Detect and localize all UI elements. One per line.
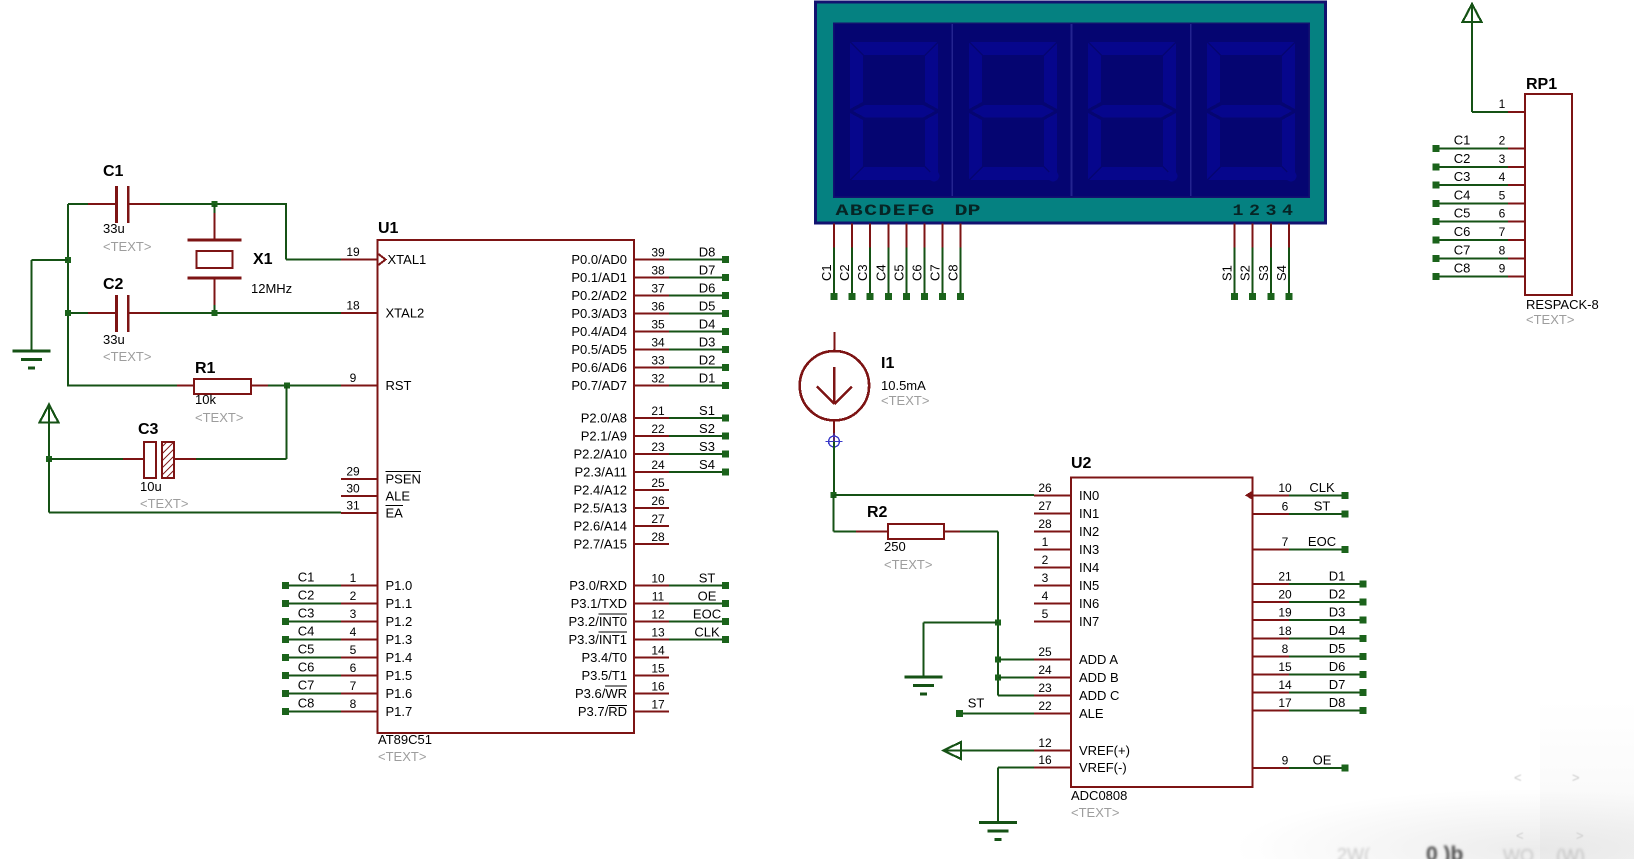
display pin C3	[869, 224, 871, 248]
pin 28 P2.7/A15 of U1	[634, 543, 669, 545]
svg-text:25: 25	[1038, 645, 1052, 659]
terminal C8 to P1.7	[282, 708, 289, 715]
svg-text:14: 14	[1278, 678, 1292, 692]
svg-text:D2: D2	[699, 353, 716, 368]
svg-text:26: 26	[1038, 481, 1052, 495]
svg-text:S4: S4	[699, 457, 715, 472]
svg-text:1: 1	[1233, 202, 1244, 220]
pin 8 OUT5 of U2 net D5	[1253, 655, 1290, 657]
capacitor C3 right hatched plate	[162, 442, 174, 478]
terminal C7 to P1.6	[282, 690, 289, 697]
pin 39 P0.0/AD0 of U1 net D8	[634, 259, 669, 261]
display pin S3	[1270, 224, 1272, 248]
pin 10 CLOCK of U2 net CLK	[1253, 494, 1290, 496]
display cell separator 3	[1190, 24, 1192, 196]
svg-text:38: 38	[651, 264, 665, 278]
display pin C1	[833, 224, 835, 248]
svg-text:R2: R2	[867, 504, 888, 521]
svg-text:D5: D5	[699, 299, 716, 314]
display pin S4	[1288, 224, 1290, 248]
svg-text:CLK: CLK	[694, 625, 720, 640]
pin 1 IN3 of U2	[1034, 548, 1071, 550]
svg-text:E: E	[893, 202, 906, 220]
svg-text:D4: D4	[699, 317, 716, 332]
svg-text:IN6: IN6	[1079, 596, 1099, 611]
svg-text:<TEXT>: <TEXT>	[1071, 805, 1119, 820]
svg-text:10k: 10k	[195, 392, 216, 407]
svg-text:D6: D6	[699, 281, 716, 296]
wire R2 right red stub	[944, 531, 960, 533]
wire C1 right to crystal node	[160, 203, 287, 205]
svg-text:C5: C5	[1454, 206, 1471, 221]
svg-text:IN4: IN4	[1079, 560, 1099, 575]
svg-text:27: 27	[651, 512, 665, 526]
svg-text:A: A	[836, 202, 850, 220]
pin 9 RST of U1	[341, 385, 378, 387]
watermark text (W)	[1556, 846, 1585, 859]
pin 19 XTAL1 of U1	[341, 259, 378, 261]
svg-text:G: G	[921, 202, 934, 220]
pin 6 START of U2 net ST	[1253, 513, 1290, 515]
svg-text:22: 22	[651, 422, 665, 436]
resistor R1	[194, 379, 251, 394]
terminal C3 to P1.2	[282, 618, 289, 625]
svg-text:<TEXT>: <TEXT>	[378, 749, 426, 764]
pin 37 P0.2/AD2 of U1 net D6	[634, 295, 669, 297]
svg-text:16: 16	[1038, 753, 1052, 767]
svg-text:B: B	[850, 202, 864, 220]
wire VCC rail down	[48, 459, 50, 513]
wire EA row	[49, 512, 341, 514]
pin 15 P3.5/T1 of U1	[634, 675, 669, 677]
pin 21 OUT1 of U2 net D1	[1253, 583, 1290, 585]
ground G1	[13, 350, 51, 353]
svg-text:2: 2	[1042, 553, 1049, 567]
svg-text:21: 21	[651, 404, 665, 418]
svg-text:33u: 33u	[103, 332, 125, 347]
svg-text:23: 23	[1038, 681, 1052, 695]
wire C1 left red stub	[88, 203, 117, 205]
overline RD	[608, 705, 627, 707]
svg-text:9: 9	[350, 371, 357, 385]
terminal C6 to P1.5	[282, 672, 289, 679]
svg-text:31: 31	[346, 499, 360, 513]
pin 5 P1.4 of U1	[341, 657, 378, 659]
pin 23 ADD C of U2	[1034, 694, 1071, 696]
svg-text:P2.6/A14: P2.6/A14	[574, 519, 628, 534]
svg-text:P0.6/AD6: P0.6/AD6	[571, 360, 627, 375]
svg-text:<TEXT>: <TEXT>	[103, 349, 151, 364]
pin 34 P0.5/AD5 of U1 net D3	[634, 349, 669, 351]
svg-text:19: 19	[346, 245, 360, 259]
svg-text:2: 2	[1499, 134, 1506, 148]
svg-text:C2: C2	[1454, 151, 1471, 166]
wire C3 left red stub	[123, 458, 145, 460]
display digit 1	[850, 42, 940, 182]
svg-text:10: 10	[651, 572, 665, 586]
svg-text:P0.3/AD3: P0.3/AD3	[571, 306, 627, 321]
watermark mark lt2	[1516, 828, 1524, 843]
pin 33 P0.6/AD6 of U1 net D2	[634, 367, 669, 369]
svg-text:4: 4	[1042, 589, 1049, 603]
svg-text:P3.2/INT0: P3.2/INT0	[568, 614, 627, 629]
display pin C7	[942, 224, 944, 248]
watermark mark gt2	[1576, 828, 1584, 843]
pin 12 VREF(+) of U2	[1034, 750, 1071, 752]
svg-text:30: 30	[346, 482, 360, 496]
svg-text:C7: C7	[1454, 242, 1471, 257]
svg-text:P2.3/A11: P2.3/A11	[574, 465, 627, 480]
svg-text:C3: C3	[855, 264, 870, 281]
svg-text:2: 2	[1249, 202, 1260, 220]
svg-text:C8: C8	[946, 264, 961, 281]
svg-text:C7: C7	[928, 264, 943, 281]
current source I1	[800, 351, 869, 420]
svg-text:15: 15	[651, 662, 665, 676]
ic U1 body	[378, 240, 635, 733]
svg-text:C2: C2	[837, 264, 852, 281]
svg-text:C5: C5	[298, 642, 315, 657]
svg-text:XTAL1: XTAL1	[388, 252, 427, 267]
display pin C2	[851, 224, 853, 248]
pin 2 IN4 of U2	[1034, 566, 1071, 568]
svg-text:P2.2/A10: P2.2/A10	[574, 447, 628, 462]
pin 1 P1.0 of U1	[341, 585, 378, 587]
svg-text:C3: C3	[138, 421, 159, 438]
svg-text:C1: C1	[103, 163, 124, 180]
svg-text:D8: D8	[1329, 695, 1346, 710]
svg-text:F: F	[907, 202, 920, 220]
wire to IN0	[834, 494, 1034, 496]
svg-text:IN3: IN3	[1079, 542, 1099, 557]
svg-text:P0.2/AD2: P0.2/AD2	[571, 288, 627, 303]
svg-text:S1: S1	[1220, 265, 1235, 281]
display cell separator 1	[951, 24, 953, 196]
svg-text:OE: OE	[1313, 753, 1332, 768]
wire R2 right	[960, 531, 998, 533]
svg-text:P3.7/RD: P3.7/RD	[578, 704, 627, 719]
svg-text:21: 21	[1278, 570, 1292, 584]
svg-text:EA: EA	[386, 506, 404, 521]
svg-text:C2: C2	[103, 276, 124, 293]
svg-text:18: 18	[346, 299, 360, 313]
pin 17 P3.7/RD of U1	[634, 711, 669, 713]
terminal C5 to P1.4	[282, 654, 289, 661]
svg-text:7: 7	[1499, 225, 1506, 239]
terminal ST to ALE	[956, 710, 963, 717]
svg-text:23: 23	[651, 440, 665, 454]
svg-text:6: 6	[350, 661, 357, 675]
svg-text:C4: C4	[298, 624, 315, 639]
pin 25 P2.4/A12 of U1	[634, 489, 669, 491]
pin 3 IN5 of U2	[1034, 584, 1071, 586]
svg-text:24: 24	[651, 458, 665, 472]
pin 19 OUT3 of U2 net D3	[1253, 619, 1290, 621]
svg-text:C5: C5	[891, 264, 906, 281]
svg-text:C3: C3	[298, 606, 315, 621]
display DS1 inner panel	[834, 23, 1310, 197]
pin 24 ADD B of U2	[1034, 676, 1071, 678]
svg-text:5: 5	[350, 643, 357, 657]
pin 26 IN0 of U2	[1034, 494, 1071, 496]
crystal X1 bottom stub	[214, 278, 216, 305]
svg-text:1: 1	[350, 571, 357, 585]
svg-text:3: 3	[350, 607, 357, 621]
wire to ground	[32, 259, 68, 261]
node ADD A junction	[995, 656, 1001, 662]
svg-text:D8: D8	[699, 245, 716, 260]
pin 17 OUT8 of U2 net D8	[1253, 710, 1290, 712]
svg-text:20: 20	[1278, 588, 1292, 602]
svg-text:P3.6/WR: P3.6/WR	[575, 686, 627, 701]
svg-text:C6: C6	[298, 660, 315, 675]
wire RP1 pin1	[1472, 111, 1508, 113]
overline PSEN	[386, 471, 422, 473]
pin 2 P1.1 of U1	[341, 603, 378, 605]
svg-text:P0.1/AD1: P0.1/AD1	[571, 270, 627, 285]
wire C1 right red stub	[129, 203, 160, 205]
pin 9 OE of U2 net OE	[1253, 767, 1290, 769]
node RST junction	[284, 382, 290, 388]
svg-text:7: 7	[1282, 535, 1289, 549]
watermark mark lt	[1514, 770, 1522, 785]
pin 10 P3.0/RXD of U1 net ST	[634, 585, 669, 587]
terminal C2 to P1.1	[282, 600, 289, 607]
watermark wash	[1240, 790, 1634, 859]
svg-text:P3.1/TXD: P3.1/TXD	[571, 596, 627, 611]
svg-text:P0.7/AD7: P0.7/AD7	[571, 378, 627, 393]
svg-text:P0.0/AD0: P0.0/AD0	[571, 252, 627, 267]
svg-text:D3: D3	[699, 335, 716, 350]
origin marker	[829, 436, 840, 447]
svg-text:P2.7/A15: P2.7/A15	[574, 537, 628, 552]
svg-text:<TEXT>: <TEXT>	[881, 393, 929, 408]
svg-text:33: 33	[651, 354, 665, 368]
wire C2 right to XTAL2 pin	[160, 312, 341, 314]
capacitor C3 left plate	[144, 442, 156, 478]
pin 36 P0.3/AD3 of U1 net D5	[634, 313, 669, 315]
wire R1 to RST junction	[268, 385, 341, 387]
svg-text:P0.5/AD5: P0.5/AD5	[571, 342, 627, 357]
svg-text:3: 3	[1042, 571, 1049, 585]
wire R2 down rail	[997, 532, 999, 696]
pin 30 ALE of U1	[341, 495, 378, 497]
svg-text:1: 1	[1499, 97, 1506, 111]
svg-text:17: 17	[1278, 696, 1292, 710]
pin 7 EOC of U2 net EOC	[1253, 549, 1290, 551]
svg-text:X1: X1	[253, 251, 273, 268]
pin 31 EA of U1	[341, 512, 378, 514]
svg-text:6: 6	[1499, 207, 1506, 221]
svg-text:D5: D5	[1329, 641, 1346, 656]
svg-text:IN7: IN7	[1079, 614, 1099, 629]
ic U2 body	[1071, 478, 1253, 788]
svg-text:16: 16	[651, 680, 665, 694]
terminal C4 to P1.3	[282, 636, 289, 643]
svg-text:C6: C6	[1454, 224, 1471, 239]
wire C2 right red stub	[129, 312, 160, 314]
svg-text:RST: RST	[386, 378, 412, 393]
wire I1 to IN0 junction	[833, 442, 835, 496]
pin 4 of RP1 net C3	[1433, 182, 1440, 189]
pin 7 P1.6 of U1	[341, 693, 378, 695]
pin 22 ALE of U2	[1034, 712, 1071, 714]
power arrow VCC left	[40, 405, 59, 423]
svg-text:VREF(-): VREF(-)	[1079, 760, 1127, 775]
svg-text:C7: C7	[298, 678, 315, 693]
display pin C5	[905, 224, 907, 248]
svg-text:C6: C6	[910, 264, 925, 281]
svg-text:IN0: IN0	[1079, 488, 1099, 503]
svg-text:ALE: ALE	[1079, 706, 1104, 721]
svg-text:D4: D4	[1329, 623, 1346, 638]
svg-text:XTAL2: XTAL2	[386, 306, 425, 321]
svg-text:ST: ST	[968, 696, 985, 711]
svg-text:C: C	[864, 202, 878, 220]
svg-text:28: 28	[1038, 517, 1052, 531]
svg-text:C8: C8	[1454, 261, 1471, 276]
svg-text:<TEXT>: <TEXT>	[884, 557, 932, 572]
svg-text:8: 8	[350, 697, 357, 711]
node rail-ground tap	[65, 257, 71, 263]
svg-text:250: 250	[884, 539, 906, 554]
svg-text:P2.4/A12: P2.4/A12	[574, 483, 628, 498]
svg-text:26: 26	[651, 494, 665, 508]
svg-text:P2.0/A8: P2.0/A8	[581, 411, 627, 426]
pin 28 IN2 of U2	[1034, 530, 1071, 532]
wire to ADD A	[998, 658, 1034, 660]
pin 20 OUT2 of U2 net D2	[1253, 601, 1290, 603]
display digit 4	[1207, 42, 1297, 182]
pin 18 XTAL2 of U1	[341, 312, 378, 314]
pin 2 of RP1 net C1	[1433, 145, 1440, 152]
pin 23 P2.2/A10 of U1 net S3	[634, 453, 669, 455]
svg-text:22: 22	[1038, 699, 1052, 713]
pin 11 P3.1/TXD of U1 net OE	[634, 603, 669, 605]
svg-text:C1: C1	[298, 570, 315, 585]
svg-text:11: 11	[652, 590, 665, 604]
svg-text:RP1: RP1	[1526, 76, 1557, 93]
svg-text:ALE: ALE	[386, 489, 411, 504]
svg-text:ADD B: ADD B	[1079, 670, 1119, 685]
svg-text:36: 36	[651, 300, 665, 314]
respack RP1 body	[1525, 94, 1572, 295]
svg-text:S2: S2	[699, 421, 715, 436]
svg-text:25: 25	[651, 476, 665, 490]
pin 35 P0.4/AD4 of U1 net D4	[634, 331, 669, 333]
svg-text:D7: D7	[699, 263, 716, 278]
pin 29 PSEN of U1	[341, 478, 378, 480]
wire R1 right red stub	[251, 385, 268, 387]
pin 4 P1.3 of U1	[341, 639, 378, 641]
svg-text:D7: D7	[1329, 677, 1346, 692]
svg-text:10.5mA: 10.5mA	[881, 378, 926, 393]
wire left rail vertical	[67, 204, 69, 386]
watermark mark gt	[1572, 770, 1580, 785]
svg-text:32: 32	[651, 372, 665, 386]
overline INT0	[599, 613, 628, 615]
svg-text:27: 27	[1038, 499, 1052, 513]
svg-text:C1: C1	[819, 264, 834, 281]
svg-text:S3: S3	[1256, 265, 1271, 281]
pin 6 P1.5 of U1	[341, 675, 378, 677]
svg-text:P3.3/INT1: P3.3/INT1	[568, 632, 627, 647]
svg-text:<TEXT>: <TEXT>	[195, 410, 243, 425]
display pin S2	[1252, 224, 1254, 248]
wire to XTAL1 pin	[286, 259, 341, 261]
svg-text:37: 37	[651, 282, 665, 296]
wire VREF- from ground	[998, 767, 1034, 769]
capacitor C2	[115, 295, 118, 332]
pin 9 of RP1 net C8	[1433, 273, 1440, 280]
svg-text:P: P	[968, 202, 981, 220]
pin 3 P1.2 of U1	[341, 621, 378, 623]
svg-text:28: 28	[651, 530, 665, 544]
svg-text:1: 1	[1042, 535, 1049, 549]
display pin S1	[1234, 224, 1236, 248]
svg-text:IN5: IN5	[1079, 578, 1099, 593]
svg-text:15: 15	[1278, 660, 1292, 674]
svg-text:S1: S1	[699, 403, 715, 418]
wire down to XTAL1 row	[285, 204, 287, 260]
svg-text:P0.4/AD4: P0.4/AD4	[571, 324, 627, 339]
svg-text:3: 3	[1499, 152, 1506, 166]
svg-text:<TEXT>: <TEXT>	[103, 239, 151, 254]
svg-text:P2.5/A13: P2.5/A13	[574, 501, 628, 516]
pin 22 P2.1/A9 of U1 net S2	[634, 435, 669, 437]
display pin C4	[887, 224, 889, 248]
svg-text:AT89C51: AT89C51	[378, 732, 432, 747]
svg-text:P1.4: P1.4	[386, 650, 413, 665]
wire I1 top stub	[833, 332, 835, 352]
wire I1 bottom stub	[833, 420, 835, 441]
svg-text:IN2: IN2	[1079, 524, 1099, 539]
wire C3 left	[49, 458, 123, 460]
svg-text:12: 12	[651, 608, 665, 622]
svg-text:33u: 33u	[103, 221, 125, 236]
wire to ADD C	[998, 694, 1034, 696]
svg-text:S4: S4	[1274, 265, 1289, 281]
crystal X1	[188, 239, 242, 242]
svg-text:D2: D2	[1329, 587, 1346, 602]
pin 18 OUT4 of U2 net D4	[1253, 637, 1290, 639]
svg-text:<TEXT>: <TEXT>	[1526, 312, 1574, 327]
svg-text:EOC: EOC	[693, 607, 721, 622]
display pin C8	[960, 224, 962, 248]
svg-text:P1.6: P1.6	[386, 686, 413, 701]
svg-text:ST: ST	[699, 571, 716, 586]
pin 24 P2.3/A11 of U1 net S4	[634, 471, 669, 473]
svg-text:P1.0: P1.0	[386, 578, 413, 593]
wire junction down to R2 row	[833, 495, 835, 532]
pin 3 of RP1 net C2	[1433, 163, 1440, 170]
display digit 2	[969, 42, 1059, 182]
svg-text:EOC: EOC	[1308, 534, 1336, 549]
wire C3 right	[196, 458, 287, 460]
display digit 3	[1088, 42, 1178, 182]
node IN0 junction	[830, 492, 836, 498]
svg-text:34: 34	[651, 336, 665, 350]
svg-text:P1.7: P1.7	[386, 704, 413, 719]
svg-text:D6: D6	[1329, 659, 1346, 674]
svg-text:C4: C4	[1454, 187, 1471, 202]
svg-text:D: D	[878, 202, 891, 220]
pin 14 P3.4/T0 of U1	[634, 657, 669, 659]
watermark text WO	[1503, 846, 1534, 859]
svg-text:S3: S3	[699, 439, 715, 454]
pin 13 P3.3/INT1 of U1 net CLK	[634, 639, 669, 641]
svg-text:C4: C4	[873, 264, 888, 281]
